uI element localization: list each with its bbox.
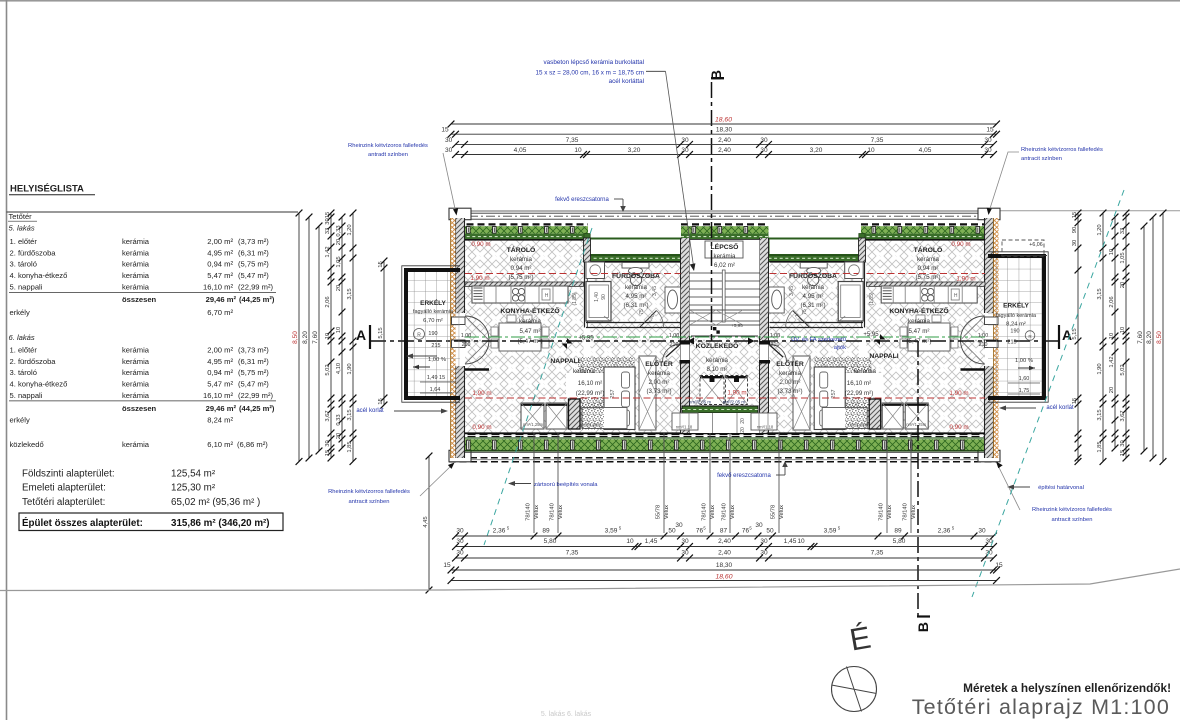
svg-text:1,64: 1,64 [430, 387, 441, 393]
svg-text:kerámia: kerámia [122, 391, 150, 400]
svg-text:kerámia: kerámia [122, 283, 150, 292]
svg-text:FÜRDŐSZOBA: FÜRDŐSZOBA [789, 271, 837, 280]
svg-text:nm³/1,25m: nm³/1,25m [906, 422, 927, 427]
svg-text:15: 15 [378, 398, 384, 404]
svg-text:Velux: Velux [534, 505, 540, 519]
svg-text:1,00: 1,00 [978, 333, 988, 339]
svg-text:2,40: 2,40 [718, 137, 731, 144]
svg-text:Rheinzink kétvízorros fallefed: Rheinzink kétvízorros fallefedés [1021, 147, 1103, 153]
svg-text:15: 15 [441, 126, 449, 133]
svg-text:3,67: 3,67 [325, 410, 331, 421]
svg-text:10: 10 [1120, 327, 1126, 333]
svg-text:acél korlát: acél korlát [356, 408, 384, 414]
svg-text:29,46 m²: 29,46 m² [206, 295, 237, 304]
svg-text:5,80: 5,80 [544, 538, 557, 545]
svg-text:15 x sz = 28,00 cm, 16 x m = 1: 15 x sz = 28,00 cm, 16 x m = 18,75 cm [536, 70, 645, 77]
svg-text:0,90 m: 0,90 m [472, 424, 491, 431]
svg-text:(5,47 m²): (5,47 m²) [238, 271, 269, 280]
svg-text:6,10 m²: 6,10 m² [207, 440, 233, 449]
svg-text:55/78: 55/78 [771, 505, 777, 520]
svg-text:KONYHA-ÉTKEZŐ: KONYHA-ÉTKEZŐ [500, 306, 559, 315]
svg-text:nm³/2,05 m: nm³/2,05 m [723, 400, 746, 405]
svg-text:1,90 m: 1,90 m [949, 390, 968, 397]
svg-text:1,05: 1,05 [1120, 252, 1126, 263]
svg-text:H: H [545, 293, 549, 299]
svg-text:fagyálló kerámia: fagyálló kerámia [413, 309, 454, 315]
svg-text:29,46 m²: 29,46 m² [206, 404, 237, 413]
svg-text:30: 30 [760, 538, 768, 545]
svg-text:10: 10 [797, 538, 805, 545]
svg-text:kerámia: kerámia [122, 380, 150, 389]
svg-text:1,42: 1,42 [1109, 356, 1115, 367]
svg-text:5. nappali: 5. nappali [10, 391, 43, 400]
svg-text:210: 210 [462, 342, 471, 348]
svg-text:1,00: 1,00 [461, 333, 471, 339]
svg-text:78/140: 78/140 [722, 503, 728, 521]
svg-text:kerámia: kerámia [122, 248, 150, 257]
svg-text:3. tároló: 3. tároló [10, 368, 37, 377]
svg-text:összesen: összesen [122, 404, 157, 413]
svg-text:KÖZLEKEDŐ: KÖZLEKEDŐ [696, 341, 739, 350]
svg-text:fekvő ereszcsatorna: fekvő ereszcsatorna [717, 473, 771, 479]
svg-text:15: 15 [1072, 398, 1078, 404]
svg-text:2,40: 2,40 [718, 538, 731, 545]
svg-text:6,70 m²: 6,70 m² [207, 308, 233, 317]
svg-text:1,90 m: 1,90 m [470, 275, 489, 282]
svg-text:ajtók: ajtók [834, 345, 846, 351]
svg-text:4,45: 4,45 [423, 516, 429, 527]
svg-text:5. lakás 6. lakás: 5. lakás 6. lakás [541, 711, 592, 718]
svg-text:Velux: Velux [710, 505, 716, 519]
svg-text:(6,31 m²): (6,31 m²) [623, 302, 648, 309]
svg-text:nm³/1,25m: nm³/1,25m [523, 422, 544, 427]
svg-text:NAPPALI: NAPPALI [869, 353, 898, 360]
svg-text:Velux: Velux [779, 505, 785, 519]
svg-text:TÁROLÓ: TÁROLÓ [507, 245, 536, 254]
svg-text:1,40: 1,40 [594, 292, 600, 302]
svg-text:1,90: 1,90 [347, 363, 353, 374]
svg-text:2,40: 2,40 [718, 550, 731, 557]
svg-text:30: 30 [681, 550, 689, 557]
svg-text:16,10 m²: 16,10 m² [578, 380, 602, 387]
svg-text:Rheinzink kétvízoros fallefedé: Rheinzink kétvízoros fallefedés [1032, 507, 1112, 513]
svg-text:Rheinzink kétvízoros fallefedé: Rheinzink kétvízoros fallefedés [348, 143, 428, 149]
svg-text:ELŐTÉR: ELŐTÉR [776, 359, 804, 368]
svg-text:30: 30 [984, 147, 992, 154]
svg-text:6. lakás: 6. lakás [9, 333, 35, 342]
svg-text:(44,25 m²): (44,25 m²) [239, 404, 275, 413]
svg-text:antracit színben: antracit színben [1052, 517, 1093, 523]
svg-text:(44,25 m²): (44,25 m²) [239, 295, 275, 304]
svg-text:H: H [954, 293, 958, 299]
svg-text:2,00 m²: 2,00 m² [207, 345, 233, 354]
svg-text:2,36: 2,36 [493, 528, 506, 535]
svg-text:4,10: 4,10 [336, 363, 342, 374]
svg-text:A: A [1062, 327, 1072, 343]
svg-text:8,50: 8,50 [1156, 331, 1163, 344]
svg-text:3,15: 3,15 [347, 409, 353, 420]
svg-text:nm³/1,25m: nm³/1,25m [848, 422, 869, 427]
svg-text:(6,31 m²): (6,31 m²) [800, 302, 825, 309]
svg-text:30: 30 [681, 538, 689, 545]
svg-text:(5,75 m²): (5,75 m²) [238, 260, 269, 269]
svg-text:7,60: 7,60 [312, 331, 319, 344]
svg-text:210: 210 [979, 342, 988, 348]
svg-text:1,75: 1,75 [1019, 388, 1030, 394]
svg-text:kerámia: kerámia [648, 370, 671, 377]
svg-text:fekvő ereszcsatorna: fekvő ereszcsatorna [555, 197, 609, 203]
svg-text:15: 15 [325, 212, 331, 218]
svg-text:20: 20 [740, 418, 746, 424]
svg-text:33: 33 [1120, 228, 1126, 234]
svg-text:15: 15 [325, 450, 331, 456]
svg-text:18,30: 18,30 [716, 562, 733, 569]
svg-text:1. előtér: 1. előtér [10, 237, 38, 246]
svg-text:kerámia: kerámia [908, 318, 931, 325]
svg-text:kerámia: kerámia [122, 368, 150, 377]
svg-text:8,50: 8,50 [292, 331, 299, 344]
svg-text:kerámia: kerámia [122, 345, 150, 354]
svg-text:5,15: 5,15 [1072, 328, 1078, 339]
svg-text:3,45: 3,45 [652, 286, 658, 296]
svg-text:5,47 m²: 5,47 m² [207, 271, 233, 280]
svg-text:kerámia: kerámia [713, 253, 736, 260]
svg-text:Velux: Velux [730, 505, 736, 519]
svg-text:5,02: 5,02 [1120, 364, 1126, 375]
svg-text:30: 30 [325, 218, 331, 224]
svg-text:8,24 m²: 8,24 m² [1006, 322, 1026, 328]
svg-text:5. nappali: 5. nappali [10, 283, 43, 292]
svg-text:15: 15 [995, 562, 1003, 569]
svg-text:2,40: 2,40 [718, 147, 731, 154]
svg-text:R: R [417, 333, 421, 339]
svg-text:30: 30 [985, 550, 993, 557]
svg-text:33: 33 [325, 228, 331, 234]
svg-text:0,90 m: 0,90 m [951, 241, 970, 248]
svg-text:0,94 m²: 0,94 m² [207, 260, 233, 269]
svg-text:1,90: 1,90 [1097, 363, 1103, 374]
svg-text:16,10 m²: 16,10 m² [847, 380, 871, 387]
svg-text:erkély: erkély [10, 308, 30, 317]
svg-text:20: 20 [336, 239, 342, 245]
svg-text:kerámia: kerámia [917, 256, 940, 263]
svg-text:8,10 m²: 8,10 m² [707, 366, 728, 373]
svg-text:Velux: Velux [887, 505, 893, 519]
svg-text:0,33: 0,33 [336, 414, 342, 425]
svg-text:kerámia: kerámia [706, 357, 729, 364]
svg-text:1,20: 1,20 [347, 224, 353, 235]
svg-text:B: B [915, 622, 931, 632]
svg-text:4. konyha-étkező: 4. konyha-étkező [10, 271, 68, 280]
svg-text:18,60: 18,60 [715, 574, 732, 581]
svg-text:30: 30 [325, 440, 331, 446]
svg-text:5. lakás: 5. lakás [9, 224, 35, 233]
svg-text:vasbeton lépcső kerámia burkol: vasbeton lépcső kerámia burkolattal [544, 59, 644, 66]
svg-text:acél korláttal: acél korláttal [609, 78, 644, 85]
svg-text:kerámia: kerámia [510, 256, 533, 263]
svg-text:2. fürdőszoba: 2. fürdőszoba [10, 248, 57, 257]
svg-text:fagyálló kerámia: fagyálló kerámia [996, 313, 1037, 319]
svg-text:(6,31 m²): (6,31 m²) [238, 357, 269, 366]
svg-text:(22,99 m²): (22,99 m²) [845, 390, 874, 397]
svg-text:5,80: 5,80 [893, 538, 906, 545]
svg-text:2,00 m²: 2,00 m² [207, 237, 233, 246]
svg-text:10: 10 [336, 327, 342, 333]
svg-text:3,15: 3,15 [1097, 409, 1103, 420]
svg-text:Velux: Velux [664, 505, 670, 519]
svg-text:20: 20 [740, 427, 746, 433]
svg-text:78/140: 78/140 [903, 503, 909, 521]
svg-text:2,36: 2,36 [938, 528, 951, 535]
svg-text:0,90 m: 0,90 m [949, 424, 968, 431]
svg-text:5,02: 5,02 [325, 364, 331, 375]
svg-text:ERKÉLY: ERKÉLY [1003, 301, 1029, 310]
svg-text:A: A [356, 327, 366, 343]
svg-text:1,85: 1,85 [347, 441, 353, 452]
svg-text:antradt színben: antradt színben [368, 152, 408, 158]
svg-text:89: 89 [542, 528, 550, 535]
svg-text:(5,47 m²): (5,47 m²) [238, 380, 269, 389]
svg-text:30: 30 [456, 538, 464, 545]
svg-text:315,86 m² (346,20 m²): 315,86 m² (346,20 m²) [171, 518, 270, 529]
svg-text:(5,75 m²): (5,75 m²) [238, 368, 269, 377]
svg-text:Velux: Velux [558, 505, 564, 519]
svg-text:FÜRDŐSZOBA: FÜRDŐSZOBA [612, 271, 660, 280]
svg-text:125,30 m²: 125,30 m² [171, 483, 216, 494]
svg-text:7,60: 7,60 [1137, 331, 1144, 344]
svg-text:kerámia: kerámia [122, 260, 150, 269]
svg-text:10: 10 [626, 538, 634, 545]
svg-text:1,00: 1,00 [770, 333, 780, 339]
svg-text:0,33: 0,33 [336, 225, 342, 236]
svg-text:8,20: 8,20 [302, 331, 309, 344]
svg-text:1,90 m: 1,90 m [956, 276, 975, 283]
svg-text:20: 20 [1109, 387, 1115, 393]
svg-text:75: 75 [802, 309, 808, 315]
svg-text:30: 30 [978, 528, 986, 535]
svg-text:kerámia: kerámia [122, 237, 150, 246]
svg-text:(1,85): (1,85) [869, 292, 875, 305]
svg-text:építési határvonal: építési határvonal [1038, 485, 1084, 491]
svg-text:ÜV. és FA szerkezetű: ÜV. és FA szerkezetű [791, 336, 846, 343]
svg-text:30: 30 [760, 550, 768, 557]
svg-text:3,59: 3,59 [824, 528, 837, 535]
svg-text:Rheinzink kétvízorros fallefed: Rheinzink kétvízorros fallefedés [328, 489, 410, 495]
svg-text:Földszinti alapterület:: Földszinti alapterület: [22, 469, 115, 480]
svg-text:215: 215 [431, 343, 440, 349]
svg-text:kerámia: kerámia [519, 318, 542, 325]
svg-text:2,00 m²: 2,00 m² [780, 379, 801, 386]
svg-text:30: 30 [760, 147, 768, 154]
svg-text:215: 215 [1007, 340, 1016, 346]
svg-text:190: 190 [428, 331, 437, 337]
svg-text:6,70 m²: 6,70 m² [423, 318, 443, 324]
svg-text:18,30: 18,30 [716, 126, 733, 133]
svg-text:Méretek a helyszínen ellenőriz: Méretek a helyszínen ellenőrizendők! [963, 681, 1171, 695]
svg-text:1,49 15: 1,49 15 [427, 375, 445, 381]
svg-text:10: 10 [574, 147, 582, 154]
svg-text:257: 257 [831, 389, 837, 398]
svg-text:30: 30 [445, 137, 453, 144]
svg-text:(6,86 m²): (6,86 m²) [237, 440, 268, 449]
svg-text:5,47 m²: 5,47 m² [520, 328, 541, 335]
svg-text:erkély: erkély [10, 416, 30, 425]
svg-text:30: 30 [1072, 240, 1078, 246]
svg-text:Velux: Velux [911, 505, 917, 519]
svg-text:50: 50 [766, 528, 774, 535]
svg-text:acél korlát: acél korlát [1046, 405, 1074, 411]
svg-text:87: 87 [720, 528, 728, 535]
svg-text:(5,75 m²): (5,75 m²) [508, 274, 533, 281]
svg-text:0,90 m: 0,90 m [471, 241, 490, 248]
svg-text:6,02 m²: 6,02 m² [714, 262, 735, 269]
svg-text:ELŐTÉR: ELŐTÉR [645, 359, 673, 368]
svg-text:4,95 m²: 4,95 m² [207, 357, 233, 366]
svg-text:3,59: 3,59 [605, 528, 618, 535]
svg-text:kerámia: kerámia [122, 271, 150, 280]
svg-text:30: 30 [456, 528, 464, 535]
svg-text:7,35: 7,35 [871, 137, 884, 144]
svg-text:kerámia: kerámia [122, 357, 150, 366]
svg-text:7,35: 7,35 [566, 137, 579, 144]
svg-text:0,94 m²: 0,94 m² [511, 265, 532, 272]
svg-text:TÁROLÓ: TÁROLÓ [914, 245, 943, 254]
svg-text:Emeleti alapterület:: Emeleti alapterület: [22, 483, 106, 494]
svg-text:Tetőtér: Tetőtér [9, 212, 33, 221]
svg-text:78/140: 78/140 [702, 503, 708, 521]
svg-text:30: 30 [681, 147, 689, 154]
svg-text:8,20: 8,20 [1146, 331, 1153, 344]
svg-text:20: 20 [336, 285, 342, 291]
svg-text:30: 30 [984, 137, 992, 144]
svg-text:kerámia: kerámia [625, 284, 648, 291]
svg-text:Épület összes alapterület:: Épület összes alapterület: [22, 517, 143, 529]
svg-text:(3,73 m²): (3,73 m²) [238, 237, 269, 246]
svg-text:15: 15 [986, 126, 994, 133]
svg-text:15: 15 [443, 562, 451, 569]
svg-text:30: 30 [755, 522, 763, 529]
svg-text:1,85: 1,85 [1097, 441, 1103, 452]
svg-text:(1,85): (1,85) [572, 292, 578, 305]
svg-text:190: 190 [1010, 329, 1019, 335]
svg-text:78/140: 78/140 [526, 503, 532, 521]
svg-text:+5,95: +5,95 [731, 323, 743, 328]
svg-text:89: 89 [894, 528, 902, 535]
svg-text:18,60: 18,60 [715, 117, 732, 124]
svg-text:Tetőtéri alapterület:: Tetőtéri alapterület: [22, 497, 105, 508]
svg-text:4,95 m²: 4,95 m² [626, 293, 647, 300]
svg-text:(22,99 m²): (22,99 m²) [238, 391, 273, 400]
svg-text:3,20: 3,20 [628, 147, 641, 154]
svg-text:2,00 m²: 2,00 m² [649, 379, 670, 386]
svg-text:65,02 m² (95,36 m² ): 65,02 m² (95,36 m² ) [171, 497, 260, 508]
svg-text:90: 90 [601, 294, 607, 300]
svg-text:kerámia: kerámia [802, 284, 825, 291]
svg-text:55/78: 55/78 [656, 505, 662, 520]
svg-text:1,20: 1,20 [1097, 224, 1103, 235]
svg-text:(5,75 m²): (5,75 m²) [915, 274, 940, 281]
svg-text:közlekedő: közlekedő [10, 440, 44, 449]
svg-text:(3,73 m²): (3,73 m²) [777, 388, 802, 395]
svg-text:3,67: 3,67 [1120, 410, 1126, 421]
svg-text:1,42: 1,42 [325, 246, 331, 257]
svg-text:(3,73 m²): (3,73 m²) [646, 388, 671, 395]
svg-text:0,94 m²: 0,94 m² [207, 368, 233, 377]
svg-text:1,00 %: 1,00 % [1015, 358, 1033, 364]
svg-text:15: 15 [378, 261, 384, 267]
svg-text:30: 30 [681, 137, 689, 144]
svg-text:nm³/1,18: nm³/1,18 [676, 425, 693, 430]
svg-text:3,45: 3,45 [789, 286, 795, 296]
svg-text:KONYHA-ÉTKEZŐ: KONYHA-ÉTKEZŐ [889, 306, 948, 315]
svg-text:257: 257 [610, 389, 616, 398]
svg-text:7,35: 7,35 [566, 550, 579, 557]
svg-text:(6,31 m²): (6,31 m²) [238, 248, 269, 257]
svg-text:1,00: 1,00 [669, 333, 679, 339]
svg-text:(3,73 m²): (3,73 m²) [238, 345, 269, 354]
svg-text:16,10 m²: 16,10 m² [203, 283, 233, 292]
svg-text:nm³/1,18: nm³/1,18 [757, 425, 774, 430]
svg-text:4,05: 4,05 [514, 147, 527, 154]
svg-text:NAPPALI: NAPPALI [550, 358, 579, 365]
svg-text:nm³/1,25m: nm³/1,25m [581, 422, 602, 427]
svg-text:zártsorú beépítés vonala: zártsorú beépítés vonala [534, 482, 598, 488]
svg-text:0,94 m²: 0,94 m² [918, 265, 939, 272]
svg-text:4,05: 4,05 [919, 147, 932, 154]
svg-text:B: B [708, 70, 724, 80]
svg-text:(22,99 m²): (22,99 m²) [576, 390, 605, 397]
svg-text:5,47 m²: 5,47 m² [909, 328, 930, 335]
svg-text:4. konyha-étkező: 4. konyha-étkező [10, 380, 68, 389]
svg-text:nm³/2,05 m: nm³/2,05 m [689, 400, 712, 405]
svg-text:LÉPCSŐ: LÉPCSŐ [711, 242, 739, 251]
svg-text:210: 210 [771, 342, 780, 348]
svg-text:75: 75 [639, 309, 645, 315]
svg-text:kerámia: kerámia [122, 440, 150, 449]
svg-text:30: 30 [445, 147, 453, 154]
svg-text:2. fürdőszoba: 2. fürdőszoba [10, 357, 57, 366]
svg-text:125,54 m²: 125,54 m² [171, 469, 216, 480]
svg-text:1,05: 1,05 [336, 256, 342, 267]
svg-text:(22,99 m²): (22,99 m²) [238, 283, 273, 292]
svg-text:7,35: 7,35 [871, 550, 884, 557]
svg-text:1,90 m: 1,90 m [472, 390, 491, 397]
svg-text:10: 10 [325, 333, 331, 339]
svg-text:30: 30 [760, 137, 768, 144]
svg-text:3. tároló: 3. tároló [10, 260, 37, 269]
svg-text:10: 10 [867, 147, 875, 154]
svg-text:10: 10 [1109, 333, 1115, 339]
svg-text:1,60: 1,60 [1019, 376, 1030, 382]
svg-text:10: 10 [1109, 249, 1115, 255]
svg-text:antracit színben: antracit színben [349, 499, 390, 505]
svg-text:1,45: 1,45 [784, 538, 797, 545]
svg-text:30: 30 [456, 550, 464, 557]
svg-text:1,00 %: 1,00 % [428, 357, 446, 363]
svg-text:15: 15 [1072, 212, 1078, 218]
svg-text:antracit színben: antracit színben [1021, 156, 1062, 162]
svg-text:5,47 m²: 5,47 m² [207, 380, 233, 389]
svg-text:20: 20 [336, 433, 342, 439]
svg-text:3,15: 3,15 [1097, 288, 1103, 299]
svg-text:+5,95: +5,95 [863, 332, 879, 338]
svg-text:+6,06: +6,06 [1029, 242, 1042, 248]
svg-text:1,45: 1,45 [645, 538, 658, 545]
svg-text:(5,47 m²): (5,47 m²) [906, 338, 931, 345]
svg-text:(5,47 m²): (5,47 m²) [517, 338, 542, 345]
svg-text:15: 15 [1120, 450, 1126, 456]
svg-text:4,95 m²: 4,95 m² [803, 293, 824, 300]
